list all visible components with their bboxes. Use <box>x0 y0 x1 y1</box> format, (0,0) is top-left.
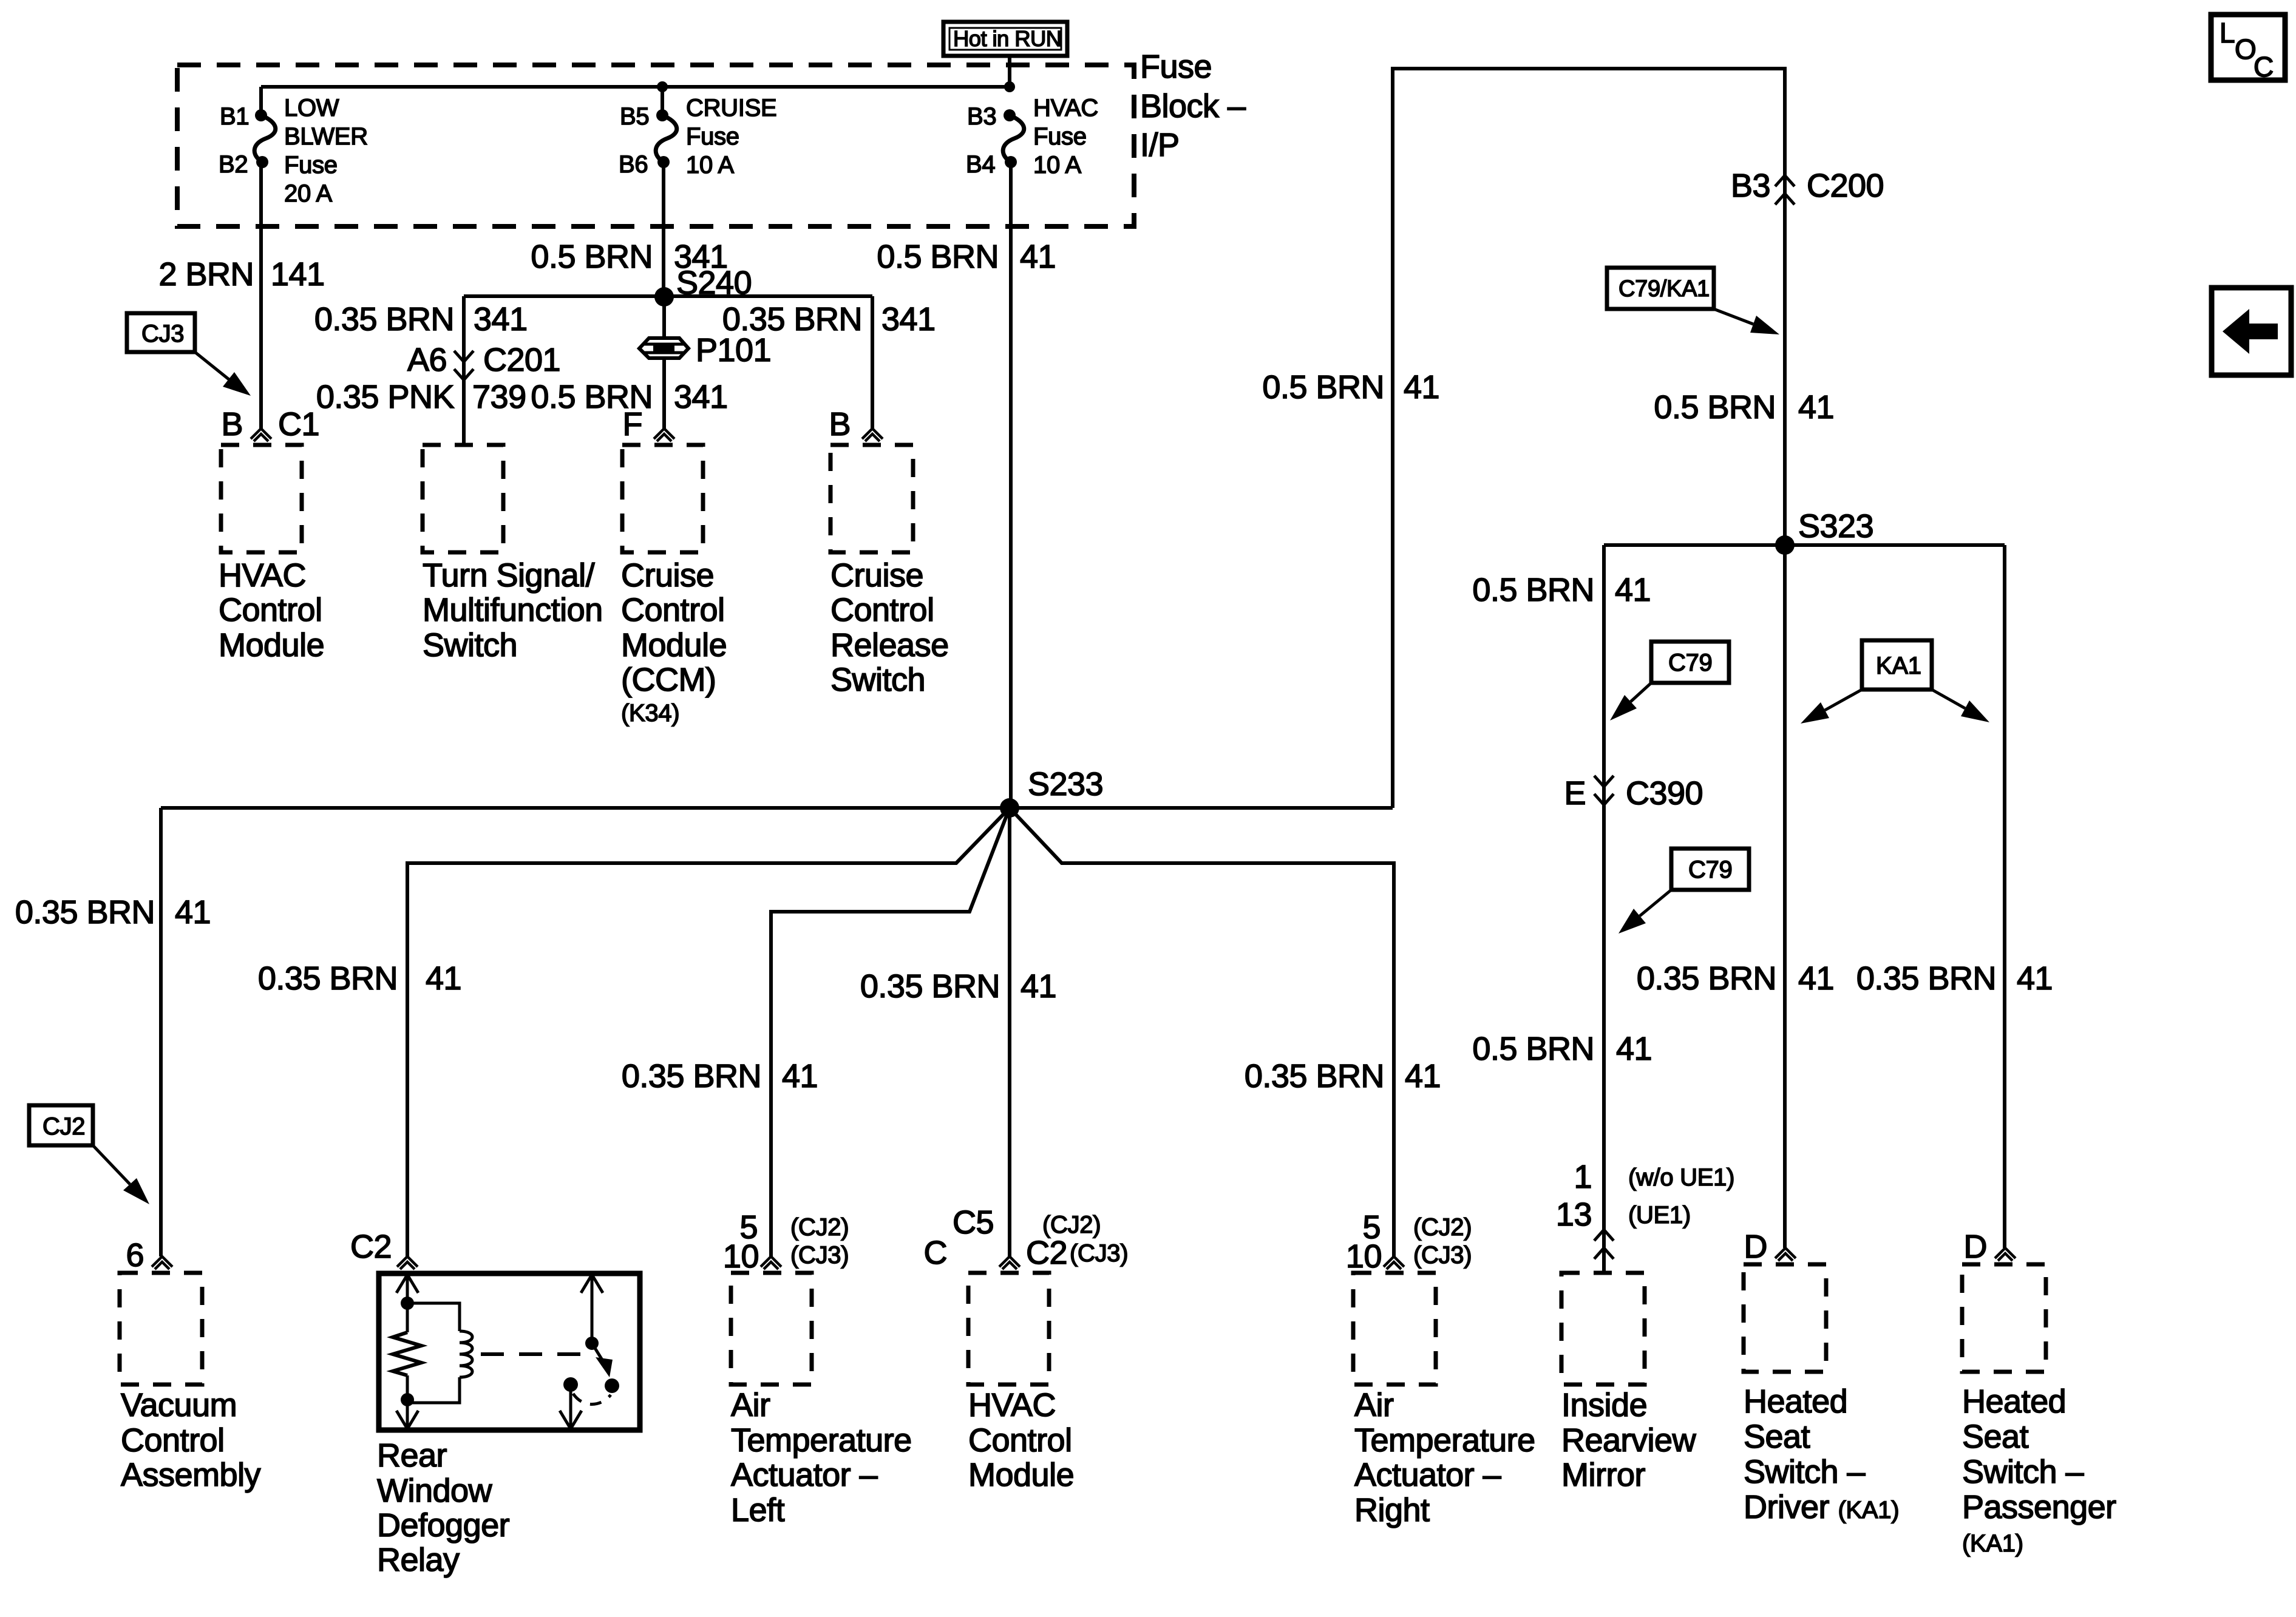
svg-text:Control: Control <box>121 1422 225 1459</box>
svg-text:10: 10 <box>1346 1238 1382 1275</box>
Hot in RUN label box <box>943 22 1067 56</box>
relay travel dashed arc <box>573 1394 611 1405</box>
svg-text:Control: Control <box>219 592 322 628</box>
arrow from KA1 to passenger wire <box>1932 690 1989 722</box>
svg-text:Fuse: Fuse <box>284 152 338 178</box>
fuse CRUISE 10A <box>656 109 677 168</box>
pins 5 (CJ2) / 10 (CJ3) at air temp left <box>723 1209 849 1275</box>
svg-text:Heated: Heated <box>1744 1383 1847 1420</box>
svg-text:341: 341 <box>881 301 936 337</box>
svg-text:B6: B6 <box>619 151 648 178</box>
svg-text:Module: Module <box>968 1457 1074 1493</box>
svg-text:B3: B3 <box>1731 168 1770 204</box>
svg-text:Hot in RUN: Hot in RUN <box>953 26 1062 51</box>
Rear Window Defogger Relay box <box>379 1273 640 1430</box>
svg-text:C390: C390 <box>1626 775 1703 812</box>
svg-text:Fuse: Fuse <box>1140 49 1212 85</box>
svg-text:Air: Air <box>731 1387 770 1423</box>
label 0.5 BRN | 341 (center) <box>531 379 727 415</box>
svg-text:2 BRN: 2 BRN <box>158 256 254 293</box>
svg-text:C79: C79 <box>1688 856 1732 883</box>
svg-text:739: 739 <box>472 379 526 415</box>
svg-text:Air: Air <box>1354 1387 1394 1423</box>
svg-text:B3: B3 <box>967 103 996 130</box>
arrow from C79 (lower) to wire <box>1618 890 1671 934</box>
wire: bus drop to B5 <box>661 87 664 114</box>
svg-text:C2: C2 <box>1026 1235 1067 1271</box>
wire 41: B4 down to S233 <box>1009 162 1013 808</box>
svg-text:Defogger: Defogger <box>377 1507 510 1544</box>
svg-text:HVAC: HVAC <box>1033 95 1098 121</box>
svg-text:E: E <box>1564 775 1586 812</box>
svg-text:Control: Control <box>968 1422 1072 1459</box>
back-arrow navigation box <box>2212 288 2291 375</box>
svg-text:341: 341 <box>474 301 528 337</box>
pins 5 (CJ2) / 10 (CJ3) at air temp right <box>1346 1209 1472 1275</box>
wire 141: B2 down to HVAC Control Module <box>259 162 263 429</box>
svg-text:41: 41 <box>1616 1031 1652 1067</box>
C79/KA1 flag box <box>1607 268 1714 309</box>
svg-text:Module: Module <box>219 627 324 663</box>
pin 13 (UE1) <box>1556 1196 1691 1233</box>
HVAC Control Module name <box>219 557 324 663</box>
CJ2 flag box <box>29 1105 93 1145</box>
label 0.35 BRN | 41 (passenger) <box>1856 960 2053 997</box>
svg-text:41: 41 <box>1798 960 1834 997</box>
svg-text:P101: P101 <box>696 332 771 368</box>
label 0.35 BRN | 41 (air temp right) <box>1245 1058 1441 1094</box>
label CRUISE Fuse 10 A <box>686 95 776 178</box>
label 2 BRN | 141 <box>158 256 324 293</box>
svg-text:Seat: Seat <box>1744 1419 1810 1455</box>
svg-text:0.5 BRN: 0.5 BRN <box>531 239 653 275</box>
svg-text:B4: B4 <box>966 151 995 178</box>
wire: fuse bus <box>261 85 1010 89</box>
Inside Rearview Mirror box <box>1561 1273 1645 1385</box>
label 0.5 BRN | 41 (mirror branch lower) <box>1472 1031 1652 1067</box>
svg-text:C201: C201 <box>483 342 560 378</box>
C79 flag box (lower) <box>1671 849 1749 890</box>
svg-text:Multifunction: Multifunction <box>423 592 603 628</box>
svg-text:Switch: Switch <box>423 627 517 663</box>
svg-text:Release: Release <box>830 627 949 663</box>
svg-text:341: 341 <box>674 379 728 415</box>
svg-text:(w/o UE1): (w/o UE1) <box>1628 1164 1734 1191</box>
wire: HVAC control module branch (straight down) <box>1008 808 1011 1256</box>
Heated Seat Switch Driver box <box>1744 1264 1826 1372</box>
svg-text:HVAC: HVAC <box>968 1387 1056 1423</box>
Fuse Block - I/P dashed outline <box>177 65 1134 226</box>
arrow from KA1 to driver wire <box>1801 690 1862 724</box>
svg-text:Passenger: Passenger <box>1962 1489 2116 1525</box>
wire: heated seat passenger branch <box>2003 545 2006 1248</box>
svg-text:CJ3: CJ3 <box>141 320 184 347</box>
wire: S240 down to Cruise Control Module <box>662 297 666 429</box>
HVAC Control Module box (bottom) <box>968 1273 1049 1385</box>
svg-text:(K34): (K34) <box>621 700 679 727</box>
relay coil <box>407 1303 472 1403</box>
svg-text:0.5 BRN: 0.5 BRN <box>1472 572 1594 608</box>
Cruise Control Module box <box>622 445 703 552</box>
svg-text:41: 41 <box>1405 1058 1441 1094</box>
svg-text:L: L <box>2220 17 2235 49</box>
svg-text:Temperature: Temperature <box>1354 1422 1535 1459</box>
arrow from CJ2 to vacuum wire <box>93 1145 149 1204</box>
svg-text:Relay: Relay <box>377 1542 460 1578</box>
pin 1 (w/o UE1) <box>1574 1159 1734 1195</box>
svg-text:0.35 BRN: 0.35 BRN <box>1856 960 1996 997</box>
HVAC Control Module box (top) <box>221 445 302 552</box>
fork at air temp left <box>761 1256 781 1267</box>
svg-text:41: 41 <box>1615 572 1651 608</box>
svg-text:Seat: Seat <box>1962 1419 2029 1455</box>
svg-text:CRUISE: CRUISE <box>686 95 776 121</box>
svg-text:Turn Signal/: Turn Signal/ <box>423 557 595 594</box>
wire: S233 main horizontal <box>161 806 1393 810</box>
Air Temperature Actuator - Right box <box>1353 1273 1436 1385</box>
CJ3 flag box <box>127 313 195 352</box>
splice P101 <box>639 332 771 368</box>
svg-text:C79: C79 <box>1668 649 1712 676</box>
label 0.5 BRN | 41 (loop left side) <box>1262 369 1439 405</box>
svg-text:Mirror: Mirror <box>1561 1457 1645 1493</box>
svg-text:Control: Control <box>830 592 934 628</box>
relay switch common vertical with arrow <box>581 1275 603 1350</box>
Air Temperature Actuator - Left name <box>731 1387 912 1528</box>
wire: air temp left branch <box>771 808 1010 1256</box>
wire: left branch down to Turn Signal switch <box>462 296 466 443</box>
svg-text:41: 41 <box>426 960 461 997</box>
svg-text:0.5 BRN: 0.5 BRN <box>1654 389 1776 425</box>
splice S240 <box>654 287 674 307</box>
svg-text:Window: Window <box>377 1473 493 1509</box>
svg-text:Fuse: Fuse <box>686 123 739 150</box>
svg-text:(CJ3): (CJ3) <box>790 1242 849 1269</box>
fuse LOW BLWER 20A <box>254 109 276 168</box>
svg-text:Actuator –: Actuator – <box>1354 1457 1501 1493</box>
fuse HVAC 10A <box>1003 109 1024 168</box>
svg-text:I/P: I/P <box>1140 127 1180 163</box>
label 0.35 BRN | 341 (left branch) <box>314 301 528 337</box>
svg-text:41: 41 <box>2017 960 2053 997</box>
Heated Seat Switch Passenger box <box>1962 1264 2046 1372</box>
label 0.5 BRN | 41 (HVAC fuse wire) <box>877 239 1056 275</box>
wire from Hot in RUN to fuse bus <box>1008 56 1011 87</box>
svg-text:0.35 BRN: 0.35 BRN <box>314 301 454 337</box>
svg-text:0.5 BRN: 0.5 BRN <box>1262 369 1384 405</box>
svg-text:A6: A6 <box>407 342 447 378</box>
label 0.5 BRN | 41 (mirror branch upper) <box>1472 572 1651 608</box>
svg-text:B5: B5 <box>620 103 649 130</box>
svg-text:B2: B2 <box>219 151 248 178</box>
relay resistor zigzag <box>393 1332 421 1375</box>
svg-text:0.35 BRN: 0.35 BRN <box>860 968 1000 1005</box>
svg-text:1: 1 <box>1574 1159 1592 1195</box>
pin B fork at Cruise Control Release Switch <box>829 406 883 442</box>
relay dashed actuation line <box>481 1352 592 1356</box>
svg-text:Actuator –: Actuator – <box>731 1457 878 1493</box>
svg-text:(UE1): (UE1) <box>1628 1202 1691 1229</box>
C79 flag box (upper) <box>1651 642 1729 683</box>
svg-text:Assembly: Assembly <box>121 1457 261 1493</box>
svg-text:Rear: Rear <box>377 1437 447 1474</box>
svg-text:KA1: KA1 <box>1876 653 1921 679</box>
svg-text:Module: Module <box>621 627 727 663</box>
svg-text:0.35 BRN: 0.35 BRN <box>15 894 155 931</box>
relay switch armature arrow <box>592 1343 619 1393</box>
connector C200 chevrons pin B3 <box>1731 168 1884 205</box>
arrow from C79/KA1 to wire <box>1714 309 1779 334</box>
svg-text:13: 13 <box>1556 1196 1592 1233</box>
wire: left branch down to Vacuum Control Assembly <box>159 808 163 1256</box>
svg-text:(CJ3): (CJ3) <box>1413 1242 1472 1269</box>
label HVAC Fuse 10 A <box>1033 95 1098 178</box>
svg-text:10 A: 10 A <box>686 152 734 178</box>
svg-text:Cruise: Cruise <box>830 557 923 594</box>
svg-text:D: D <box>1964 1229 1988 1265</box>
svg-text:C5: C5 <box>953 1204 994 1241</box>
Inside Rearview Mirror name <box>1561 1387 1697 1493</box>
svg-text:41: 41 <box>1020 239 1056 275</box>
svg-text:HVAC: HVAC <box>219 557 306 594</box>
wire: relay branch (diagonal + horizontal + drop) <box>407 808 1010 1256</box>
wire: S323 horizontal <box>1604 543 2005 547</box>
terminal C2 fork at relay <box>350 1229 418 1269</box>
svg-text:LOW: LOW <box>284 95 339 121</box>
svg-text:Switch –: Switch – <box>1744 1454 1866 1490</box>
svg-text:0.35 BRN: 0.35 BRN <box>258 960 398 997</box>
svg-text:C79/KA1: C79/KA1 <box>1618 276 1710 302</box>
label LOW BLWER Fuse 20 A <box>284 95 368 207</box>
svg-text:B1: B1 <box>220 103 249 130</box>
Cruise Control Release Switch box <box>830 445 913 552</box>
Cruise Control Release Switch name <box>830 557 949 698</box>
pin D fork at heated seat passenger <box>1964 1229 2016 1265</box>
arrow from CJ3 to wire 141 <box>195 352 251 396</box>
svg-text:S233: S233 <box>1028 766 1103 802</box>
svg-text:(CJ2): (CJ2) <box>790 1214 849 1241</box>
fork at air temp right <box>1384 1256 1404 1267</box>
wire: right branch down to Cruise Control Release Switch <box>871 296 874 429</box>
label 0.35 BRN | 41 (air temp left) <box>622 1058 818 1094</box>
Vacuum Control Assembly name <box>121 1387 261 1493</box>
svg-text:0.5 BRN: 0.5 BRN <box>877 239 999 275</box>
Vacuum Control Assembly box <box>120 1273 202 1385</box>
svg-text:0.5 BRN: 0.5 BRN <box>1472 1031 1594 1067</box>
svg-text:41: 41 <box>1404 369 1439 405</box>
svg-text:Heated: Heated <box>1962 1383 2066 1420</box>
svg-text:20 A: 20 A <box>284 180 332 207</box>
svg-text:C: C <box>924 1235 948 1271</box>
Heated Seat Switch - Passenger (KA1) name <box>1962 1383 2116 1557</box>
svg-text:F: F <box>623 406 643 442</box>
junction on bus at B3 <box>1004 81 1015 92</box>
svg-text:C1: C1 <box>278 406 319 442</box>
svg-text:D: D <box>1744 1229 1768 1265</box>
svg-text:Switch: Switch <box>830 662 925 698</box>
svg-text:0.35 BRN: 0.35 BRN <box>722 301 862 337</box>
Rear Window Defogger Relay name <box>377 1437 510 1578</box>
svg-text:0.35 PNK: 0.35 PNK <box>316 379 455 415</box>
Turn Signal / Multifunction Switch box <box>423 445 503 552</box>
svg-text:B: B <box>829 406 851 442</box>
svg-text:C2: C2 <box>350 1229 392 1265</box>
svg-text:0.35 BRN: 0.35 BRN <box>622 1058 761 1094</box>
svg-text:B: B <box>221 406 243 442</box>
arrow from C79 (upper) to wire <box>1610 683 1651 720</box>
label 0.35 BRN | 341 (right branch) <box>722 301 936 337</box>
label 0.35 BRN | 41 (driver) <box>1637 960 1834 997</box>
svg-text:41: 41 <box>782 1058 818 1094</box>
Air Temperature Actuator - Left box <box>731 1273 812 1385</box>
pins C5 (CJ2) / C C2 (CJ3) at HVAC control module <box>924 1204 1129 1271</box>
relay coil-side vertical with arrows <box>396 1275 418 1429</box>
svg-text:0.35 BRN: 0.35 BRN <box>1637 960 1776 997</box>
svg-text:(CJ3): (CJ3) <box>1070 1240 1128 1267</box>
pin D fork at heated seat driver <box>1744 1229 1796 1265</box>
svg-text:Fuse: Fuse <box>1033 123 1087 150</box>
svg-text:Temperature: Temperature <box>731 1422 912 1459</box>
wire: inside rearview mirror branch <box>1602 545 1606 1273</box>
svg-text:Vacuum: Vacuum <box>121 1387 237 1423</box>
svg-text:C200: C200 <box>1807 168 1884 204</box>
svg-text:Right: Right <box>1354 1492 1430 1528</box>
svg-text:Control: Control <box>621 592 725 628</box>
Turn Signal/Multifunction Switch name <box>423 557 603 663</box>
label 0.35 BRN | 41 (above S233) <box>860 968 1056 1005</box>
svg-text:141: 141 <box>271 256 325 293</box>
splice S233 <box>1000 798 1019 818</box>
Fuse Block - I/P name <box>1140 49 1246 163</box>
svg-text:0.35 BRN: 0.35 BRN <box>1245 1058 1384 1094</box>
pin B / connector C1 fork at HVAC Control Module <box>221 406 319 442</box>
svg-text:C: C <box>2254 51 2274 83</box>
svg-text:S323: S323 <box>1798 508 1873 544</box>
wire: air temp right branch <box>1010 808 1394 1256</box>
svg-text:(KA1): (KA1) <box>1962 1530 2023 1557</box>
connector C390 chevrons pin E <box>1564 775 1703 812</box>
label 0.35 PNK | 739 <box>316 379 526 415</box>
svg-text:Rearview: Rearview <box>1561 1422 1697 1459</box>
pin F fork at Cruise Control Module <box>623 406 675 442</box>
wire: bus drop to B1 <box>259 87 263 114</box>
svg-text:41: 41 <box>1021 968 1056 1005</box>
svg-text:CJ2: CJ2 <box>42 1113 85 1140</box>
svg-text:Cruise: Cruise <box>621 557 714 594</box>
connector C201 chevrons pin A6 <box>407 342 560 380</box>
svg-text:Switch –: Switch – <box>1962 1454 2084 1490</box>
relay output terminal with arrow <box>560 1377 582 1429</box>
svg-text:BLWER: BLWER <box>284 123 368 150</box>
KA1 flag box <box>1862 640 1932 690</box>
Heated Seat Switch - Driver (KA1) name <box>1744 1383 1899 1525</box>
label 0.5 BRN | 341 <box>531 239 727 275</box>
label 0.35 BRN | 41 (vacuum branch) <box>15 894 211 931</box>
svg-text:Block –: Block – <box>1140 88 1246 124</box>
svg-text:41: 41 <box>175 894 211 931</box>
Cruise Control Module (CCM) (K34) name <box>621 557 727 727</box>
wire: right loop up and across to C200 drop <box>1393 69 1785 808</box>
fork at HVAC control module <box>999 1256 1020 1267</box>
svg-text:6: 6 <box>126 1237 144 1273</box>
svg-text:10 A: 10 A <box>1033 152 1081 178</box>
wire: heated seat driver branch <box>1783 545 1787 1248</box>
pin 6 fork at Vacuum Control Assembly <box>126 1237 172 1273</box>
splice S323 <box>1775 535 1795 555</box>
svg-text:10: 10 <box>723 1238 759 1275</box>
svg-text:Inside: Inside <box>1561 1387 1647 1423</box>
in-line connector chevrons above mirror <box>1594 1230 1614 1259</box>
wire 341 from B6 to S240 <box>662 162 665 297</box>
label 0.35 BRN | 41 (relay branch) <box>258 960 461 997</box>
svg-text:(CJ2): (CJ2) <box>1413 1214 1472 1241</box>
label 0.5 BRN | 41 (C200 wire) <box>1654 389 1834 425</box>
svg-text:(CCM): (CCM) <box>621 662 716 698</box>
Air Temperature Actuator - Right name <box>1354 1387 1535 1528</box>
HVAC Control Module name (bottom) <box>968 1387 1074 1493</box>
LOC page reference box <box>2211 15 2285 83</box>
wire: S240 horizontal <box>464 294 872 298</box>
svg-text:41: 41 <box>1798 389 1834 425</box>
svg-text:Left: Left <box>731 1492 785 1528</box>
junction on bus at B5 <box>657 81 668 92</box>
